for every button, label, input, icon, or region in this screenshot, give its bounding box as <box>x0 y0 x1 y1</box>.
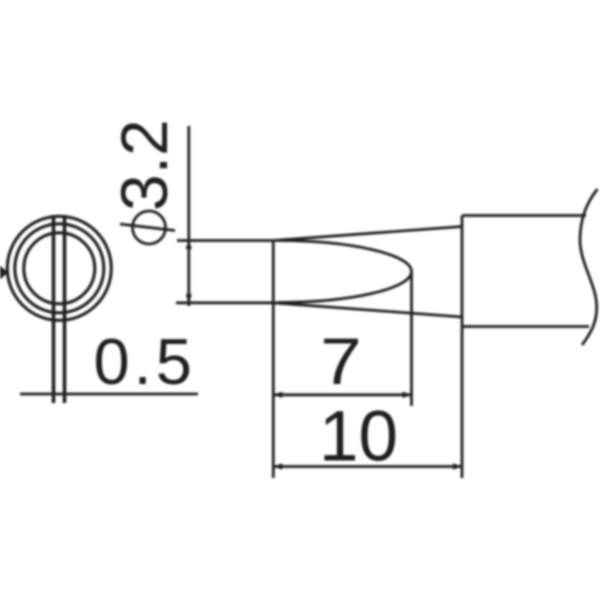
svg-text:10: 10 <box>319 398 398 477</box>
svg-text:0.5: 0.5 <box>94 325 196 398</box>
svg-text:7: 7 <box>320 324 361 398</box>
svg-text:3.2: 3.2 <box>107 119 181 211</box>
